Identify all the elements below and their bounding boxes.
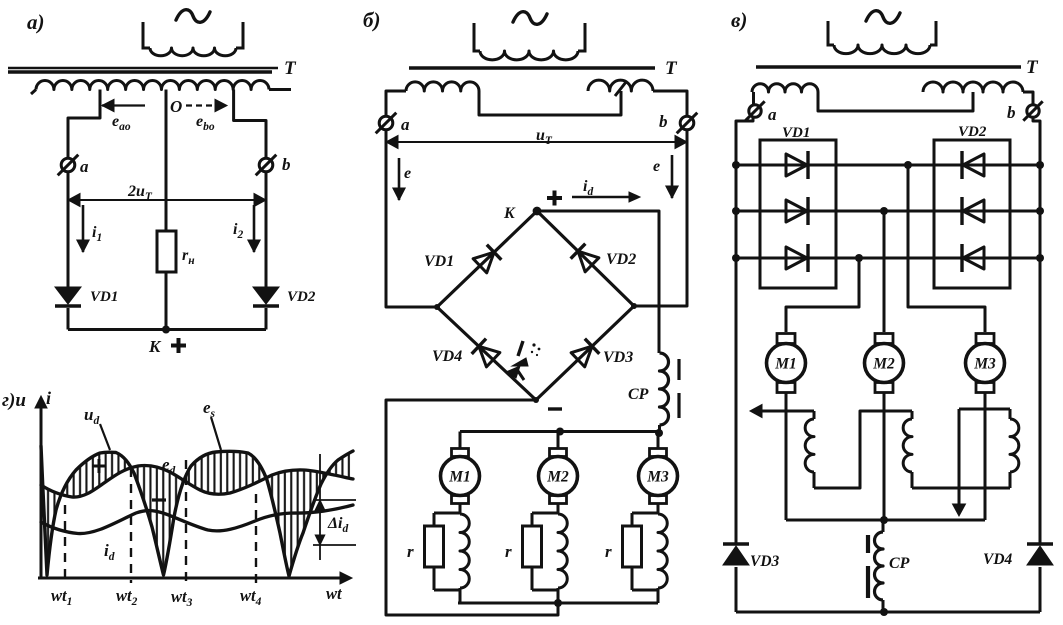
secondary free end stub (a) [269,88,291,91]
svg-text:VD2: VD2 [287,289,316,305]
diode VD1 row2 (v) [786,200,807,222]
wire: resistor bottom [433,567,436,590]
label plus (b) [547,196,562,200]
arrow i_d (b) [572,196,630,198]
svg-text:b: b [659,112,668,131]
wire: left winding to terminal a (v) [752,92,755,104]
resistor r at x=434 [425,526,444,567]
junction dot row2 tap (v) [880,207,888,215]
transformer T core (v) [756,65,1021,69]
dashed line wt3 [185,460,187,583]
transformer secondary right winding (v) [923,82,1023,92]
svg-text:M2: M2 [546,469,569,486]
svg-text:а): а) [27,10,45,34]
wire: right winding to terminal b (v) [1023,92,1033,104]
arrow line uT (b) [386,141,687,143]
junction dot bottom (v) [880,608,888,616]
transformer T core (a) [8,67,278,70]
inductor coil at x=558 [558,514,567,588]
svg-text:b: b [1007,103,1016,122]
wire: motor top bus (b) [460,430,659,433]
wire: L1 to L2 link (v) [814,411,912,488]
junction dot bus (v) [880,516,888,524]
diode VD1 (a) [55,287,81,304]
wire: M1 top feed (b) [459,432,462,450]
wire: M3 branch to bottom bus (b) [657,588,660,603]
wire: M2 branch to bottom bus (b) [557,588,560,603]
svg-text:r: r [605,542,612,561]
wire: M3 bottom to bus (v) [984,393,987,520]
svg-text:VD4: VD4 [432,348,462,365]
transformer T core (b) [409,66,655,70]
svg-text:M1: M1 [448,469,471,486]
plus sign in hump [92,465,106,468]
svg-text:M3: M3 [646,469,669,486]
wire: resistor bottom [631,567,634,590]
inductor coil at x=658 [658,514,667,588]
junction dot row3 tap (v) [855,254,863,262]
wire: branch top node [532,512,558,515]
transformer T primary winding (a) [143,22,150,48]
field coil L3 (v) [1009,472,1012,488]
junction dots rails (v) [732,207,740,215]
y axis u,i [40,400,43,578]
wire: M2 bottom (b) [557,504,560,514]
junction dot CP bottom (b) [655,429,663,437]
vertex blob left (b) [434,304,440,310]
junction dots rails (v) [732,254,740,262]
wire: right tap to terminal b [234,90,266,159]
svg-text:r: r [407,542,414,561]
curve e_d [41,465,353,497]
resistor r at x=632 [623,526,642,567]
AC source sine symbol (a) [176,10,210,23]
junction dot M2 top (b) [556,428,564,436]
terminal b (v) [1027,105,1039,117]
wire: secondary series link (b) [479,91,621,115]
terminal a (v) [749,105,761,117]
motor M3 (v) [976,334,994,344]
field chain current arrow left [752,410,814,413]
terminal a (a) [61,158,75,172]
transformer T primary winding (b) [474,23,480,51]
svg-text:VD3: VD3 [750,553,780,570]
x axis wt [38,577,346,580]
arrow line 2uT [68,199,266,201]
wire: row2 tap to M2 (v) [883,211,886,332]
svg-text:VD1: VD1 [90,289,118,305]
svg-text:i: i [46,388,51,408]
diode VD4 (v) [1027,542,1053,546]
diode VD3 (b) [571,346,592,367]
transformer secondary left winding (v) [752,84,818,92]
smoothing reactor CP coil (b) [660,353,669,425]
wire: center tap down [165,90,168,232]
curve i_d [41,505,353,534]
diode VD2 row1 (v) [963,154,984,176]
diode VD4 (b) [479,346,500,367]
junction dot bottom bus (b) [554,599,562,607]
junction dot K (a) [162,326,170,334]
diode VD2 (b) [578,251,599,272]
wire: branch top node [434,512,460,515]
dashed line wt2 [130,468,132,583]
svg-text:O: O [170,97,182,116]
arrow current i1 [82,205,85,252]
arrow emf e right (b) [671,155,674,198]
resistor rn load [157,231,176,272]
bus row 3 (v) [736,257,1040,260]
svg-text:СР: СР [628,386,649,403]
wire: row1 tap to M3 (v) [908,165,985,332]
motor M2 (v) [875,334,893,344]
wire: M3 top feed (b) [657,433,660,449]
wire: terminal a to left rail (v) [736,118,753,545]
svg-text:СР: СР [889,555,910,572]
hatched area between u_d and e_d [41,446,353,576]
wire: resistor to bottom [165,272,168,330]
motor M2 (b) [550,449,567,457]
wire: M1 branch to bottom bus (b) [459,588,462,603]
smoothing reactor CP (v) [882,520,885,532]
wire: armature bottom bus (v) [786,519,985,522]
svg-text:VD2: VD2 [958,124,987,140]
wire: M1 bottom to bus (v) [785,393,788,520]
wire: M3 bottom (b) [657,504,660,514]
diode VD2 row3 (v) [963,247,984,269]
arrow e_bo dashed [186,104,212,106]
bus row 2 (v) [736,210,1040,213]
svg-text:в): в) [731,8,747,32]
minus sign [152,498,166,501]
svg-text:a: a [80,157,89,176]
svg-text:a: a [401,115,410,134]
junction dot K (b) [533,207,542,216]
arrow e_ao [102,104,145,106]
transformer secondary link (v) [818,92,973,111]
junction dot row1 tap (v) [904,161,912,169]
svg-text:T: T [1026,57,1039,78]
label minus (b) [548,407,562,410]
wire: bridge minus return (b) [386,400,558,615]
diode block VD2 box (v) [934,140,1010,288]
bus row 1 (v) [736,164,1040,167]
transformer secondary left winding (b) [406,82,479,91]
smoothing reactor core dashes (v) [866,535,870,553]
svg-text:б): б) [363,8,380,32]
motor M1 (b) [452,449,469,457]
wire: left rail lower (v) [735,567,738,612]
wire: branch top node [632,512,658,515]
dashed line wt4 [255,494,257,583]
svg-text:wt: wt [326,584,342,603]
wire: right rail lower (v) [1039,567,1042,612]
diode VD1 (b) [473,252,494,273]
arrow emf e left (b) [398,158,401,200]
svg-text:VD3: VD3 [603,349,633,366]
wire: L3 top link (v) [959,408,1010,411]
svg-text:M1: M1 [774,356,797,373]
wire: M2 top feed (b) [557,432,560,450]
wire: terminal a down to bridge left vertex [386,130,437,307]
arrow current i2 [253,205,256,252]
wire: right branch down [265,172,268,287]
wire: motor bottom bus (b) [458,602,658,605]
svg-text:e: e [653,158,660,175]
diode VD2 (a) [253,287,279,304]
wire: terminal b down to bridge right vertex [634,130,687,306]
svg-text:e: e [404,165,411,182]
vertex blob right (b) [631,303,637,309]
wire: M2 bottom to bus (v) [883,393,886,520]
vertex blob bottom (b) [533,397,539,403]
svg-text:M2: M2 [872,356,895,373]
wire: resistor bottom [531,567,534,590]
svg-text:r: r [505,542,512,561]
diode VD1 row1 (v) [786,154,807,176]
wire: bottom bus (v) [736,611,1040,614]
field chain arrow down to bus (v) [958,409,961,505]
wire: secondary left end to terminal a (b) [386,91,406,116]
motor M1 (v) [777,334,795,344]
field coil L2 (v) [911,411,914,419]
wire: M1 bottom (b) [459,504,462,514]
diode VD3 (v) [723,542,749,546]
transformer secondary right winding (b) [588,80,653,91]
terminal a (b) [379,116,393,130]
wire: row3 tap to M1 (v) [786,258,859,332]
smoothing reactor core dashes (b) [677,359,680,380]
svg-text:a: a [768,105,777,124]
resistor r at x=532 [523,526,542,567]
scan artifact smudge [518,341,523,356]
field coil L1 (v) [813,411,816,419]
wire: L2 to L3 link (v) [912,487,1010,490]
wire: secondary right end to terminal b (b) [653,91,687,116]
wire: left tap to terminal a [68,90,100,159]
transformer T secondary winding (a) [31,90,36,95]
wire: K to smoothing reactor [537,211,659,353]
diode block VD1 box (v) [760,140,836,288]
terminal b (b) [680,116,694,130]
link end tick (b) [615,82,626,96]
svg-text:г)u: г)u [2,390,26,411]
svg-text:K: K [148,337,162,356]
svg-text:b: b [282,155,291,174]
bridge diamond wires [437,211,634,400]
svg-text:VD4: VD4 [983,551,1013,568]
svg-text:T: T [665,58,678,79]
wire: bottom bus (a) [67,308,70,330]
diode VD1 row3 (v) [786,247,807,269]
junction dots rails (v) [732,161,740,169]
delta i_d dimension [319,454,321,560]
svg-text:T: T [284,58,297,79]
svg-text:VD1: VD1 [424,253,454,270]
motor M3 (b) [650,449,667,457]
svg-text:K: K [503,205,516,222]
diode VD2 row2 (v) [963,200,984,222]
terminal b (a) [259,158,273,172]
curve u_d rectified humps [41,446,353,576]
AC source sine symbol (v) [866,11,900,24]
AC source sine symbol (b) [513,12,547,25]
wire: left branch down [67,172,70,287]
inductor coil at x=460 [460,514,469,588]
wire: terminal b to right rail (v) [1033,118,1040,545]
dashed line wt1 [64,505,66,583]
svg-text:M3: M3 [973,356,996,373]
svg-text:VD2: VD2 [606,251,636,268]
transformer T primary winding (v) [828,21,834,45]
